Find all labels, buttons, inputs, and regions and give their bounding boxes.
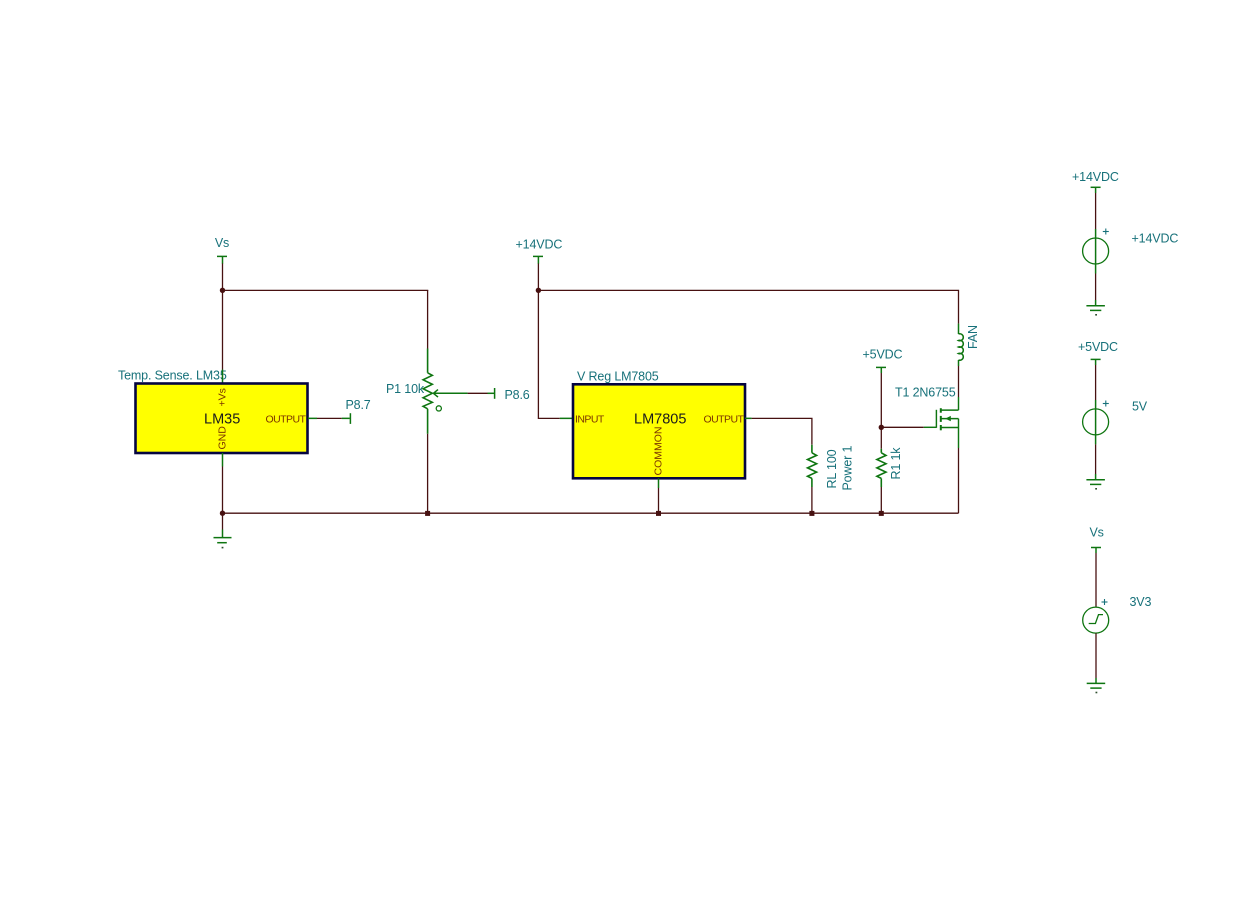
terminal +14VDC (mid) [533,256,543,263]
node R1-rail junction [879,511,884,516]
wire P1 bottom to rail [427,434,429,513]
ground V2 [1086,474,1105,484]
pin COMMON stub [658,478,660,488]
ground dot V3 [1096,692,1098,694]
potentiometer wiper circle mark [436,406,441,411]
svg-text:5V: 5V [1132,400,1148,414]
wire R1 to rail [880,487,882,513]
terminal P8.6 [488,388,495,399]
svg-text:COMMON: COMMON [653,427,665,476]
wire RL to rail [811,487,813,513]
wire down to P1 [427,290,429,348]
node P1-rail junction [425,511,430,516]
wire to source circle [1095,193,1097,229]
ground dot V2 [1095,488,1097,490]
svg-text:+14VDC: +14VDC [1072,170,1119,184]
plus sign V2 [1103,401,1109,407]
svg-text:+14VDC: +14VDC [1132,232,1179,246]
node COMMON-rail junction [656,511,661,516]
wire node A to P1 top [223,289,429,291]
svg-text:3V3: 3V3 [1130,595,1152,609]
svg-text:FAN: FAN [966,325,980,349]
svg-text:+5VDC: +5VDC [863,348,903,362]
wire +14VDC down [537,264,539,291]
wire node A down to LM35 +Vs [222,290,224,369]
wire to source circle [1095,365,1097,400]
node RL-rail junction [809,511,814,516]
svg-text:P8.7: P8.7 [346,398,371,412]
node B junction [536,288,541,293]
svg-text:LM35: LM35 [204,412,240,428]
svg-text:V Reg LM7805: V Reg LM7805 [577,370,659,384]
ground (main) [214,530,232,543]
wire gate node down to R1 [880,427,882,449]
plus sign V3 [1102,599,1108,605]
wire FAN to T1 drain [958,366,960,397]
svg-text:GND: GND [217,426,229,450]
wire +5VDC down to gate node [880,373,882,427]
ground V3 [1087,678,1106,688]
node gate junction [879,425,884,430]
IC U2 LM7805 body [573,384,745,478]
terminal +5VDC [876,367,886,373]
transistor Q1 T1 2N6755 MOSFET [924,397,959,448]
wire OUTPUT to RL [752,418,812,444]
transistor Q1 arrow [945,416,951,421]
ground V1 [1086,300,1105,310]
terminal P8.7 [342,413,351,424]
svg-text:T1 2N6755: T1 2N6755 [895,386,956,400]
resistor R1 1k [877,449,886,487]
wire circle to ground [1095,274,1097,301]
svg-text:RL 100: RL 100 [825,449,839,488]
potentiometer wiper arrow [433,390,467,398]
wire top rail to FAN [538,290,958,323]
potentiometer P1 10k [423,349,432,434]
wire node B down to INPUT [538,290,559,418]
wire OUTPUT to P8.7 [317,417,342,419]
svg-text:R1 1k: R1 1k [889,447,903,480]
pin +Vs stub [222,370,224,384]
resistor RL 100 [808,445,817,487]
node GND-left junction [220,511,225,516]
svg-text:OUTPUT: OUTPUT [266,414,307,426]
svg-text:Vs: Vs [1090,526,1104,540]
svg-text:+Vs: +Vs [217,388,229,406]
wire wiper to P8.6 [468,392,488,394]
svg-text:Vs: Vs [215,236,229,250]
voltage source V2 +5VDC [1078,340,1148,490]
inductor FAN [959,324,964,366]
wire junction to ground symbol [222,513,224,529]
svg-text:OUTPUT: OUTPUT [704,414,745,426]
voltage source V3 Vs 3V3 [1083,526,1152,694]
svg-text:Temp. Sense. LM35: Temp. Sense. LM35 [118,369,227,383]
pin OUTPUT stub (LM7805) [745,417,752,419]
ground dot (main) [222,547,224,549]
source V2 circle [1083,409,1109,435]
wire T1 source to rail [958,448,960,513]
terminal Vs (top-left) [217,256,227,263]
wire GND to ground rail [222,467,224,514]
wire bottom rail [223,512,959,514]
wire gate node to T1 gate [881,426,924,428]
source V3 circle [1083,607,1109,633]
node A junction [220,288,225,293]
svg-text:P8.6: P8.6 [505,388,530,402]
IC U1 LM35 body [136,384,308,454]
pin INPUT stub [560,417,573,419]
source V1 circle [1083,238,1109,264]
voltage source V1 +14VDC [1072,170,1178,316]
terminal +14VDC (source) [1091,187,1101,193]
svg-text:P1 10k: P1 10k [386,382,425,396]
plus sign V1 [1103,229,1109,235]
wire Vs to node A [222,264,224,291]
svg-text:Power 1: Power 1 [841,445,855,490]
svg-text:+5VDC: +5VDC [1078,340,1118,354]
terminal Vs (source) [1091,548,1101,554]
svg-text:+14VDC: +14VDC [516,238,563,252]
pin OUTPUT stub [308,417,317,419]
source V3 step waveform [1089,615,1103,624]
pin GND stub (LM35) [222,453,224,467]
svg-text:INPUT: INPUT [575,414,605,426]
wire COMMON to rail [658,488,660,513]
wire circle to ground [1095,444,1097,474]
wire circle to ground [1095,633,1097,678]
svg-text:LM7805: LM7805 [634,412,686,428]
ground dot V1 [1095,314,1097,316]
terminal +5VDC (source) [1091,359,1101,365]
wire to source circle [1095,553,1097,607]
